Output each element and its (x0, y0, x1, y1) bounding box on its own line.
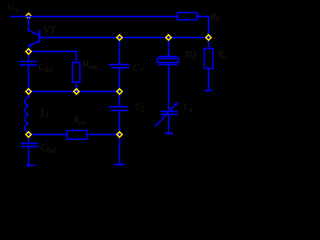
wire rail to right column corner (197, 17, 209, 38)
wire right R top lead (208, 39, 210, 48)
resistor R right box (204, 49, 213, 69)
wire C2 bottom lead (119, 111, 121, 134)
wire C1 bottom lead (119, 69, 121, 92)
capacitor C2 plates (109, 107, 129, 111)
resistor R emitter box (72, 63, 80, 82)
svg-text:ZQ: ZQ (185, 50, 197, 60)
transistor VT emitter lead (29, 41, 40, 52)
resistor R coupling box (67, 131, 87, 140)
node junction dots over wires (26, 35, 211, 137)
node base wire / R right junction (206, 35, 211, 40)
ground right bar (205, 90, 213, 92)
wire to ground mid (119, 135, 121, 164)
ground left bar (26, 165, 35, 167)
wire C1 top lead (119, 39, 121, 64)
wire resistor bottom lead (75, 82, 77, 92)
capacitor C variable plates (160, 112, 179, 115)
wire row 134 left (29, 134, 68, 136)
node wire134 right junction (117, 132, 122, 137)
node base wire / C1 junction (117, 35, 122, 40)
capacitor C1 plates (109, 65, 130, 68)
transistor VT base bar (39, 30, 41, 43)
capacitor C bottom-left plates (21, 144, 39, 147)
crystal ZQ top plate (158, 56, 177, 58)
node wire89 resistor junction (74, 89, 79, 94)
capacitor variable arrow head (174, 102, 179, 107)
node wire89 right junction (117, 89, 122, 94)
ground varicap bar (165, 133, 173, 135)
wire base rail (40, 37, 209, 39)
capacitor C emitter plates (20, 62, 38, 66)
capacitor C emitter top lead (28, 53, 30, 61)
capacitor C bottom-left top lead (28, 137, 30, 143)
wire to ground left (28, 147, 30, 165)
node wire134 left junction (26, 132, 31, 137)
crystal ZQ body (157, 59, 178, 63)
node emitter junction (26, 49, 31, 54)
transistor VT emitter arrow head (29, 43, 34, 47)
wire emitter cap to row89 (28, 66, 30, 92)
wire crystal to varicap (168, 65, 170, 110)
wire row 134 right (87, 134, 120, 136)
ground mid bar (114, 164, 124, 166)
node collector rail junction (under wires) (26, 13, 31, 18)
wire right R to ground (208, 69, 210, 90)
wire row 89 (29, 91, 120, 93)
wire varicap to ground (168, 115, 170, 133)
capacitor variable arrow line (155, 103, 177, 126)
node base wire / crystal junction (166, 35, 171, 40)
resistor R top box (177, 13, 196, 20)
inductor L coil (25, 92, 29, 135)
node wire89 left junction (26, 89, 31, 94)
wire emitter row (29, 52, 77, 63)
crystal ZQ bottom plate (158, 64, 177, 66)
wire C2 top lead (119, 94, 121, 106)
wire top supply rail (10, 16, 177, 18)
svg-text:VT: VT (43, 24, 57, 36)
wire collector lead (29, 17, 40, 36)
wire crystal top lead (168, 39, 170, 56)
